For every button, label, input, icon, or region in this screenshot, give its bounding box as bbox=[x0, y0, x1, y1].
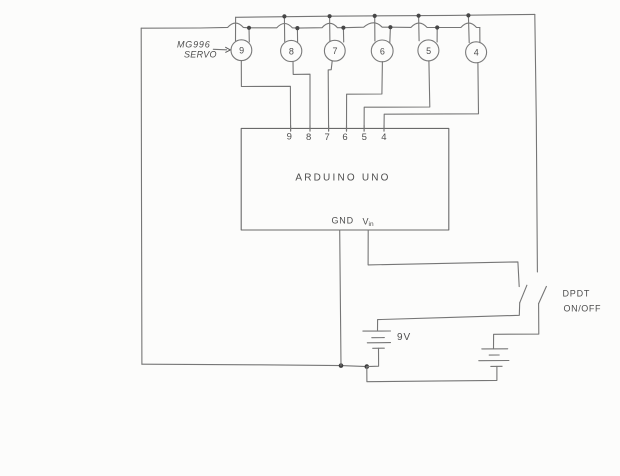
svg-text:7: 7 bbox=[325, 132, 330, 143]
junction: servo4 left lead on top bus bbox=[466, 13, 470, 17]
battery B1 plate long bbox=[367, 342, 390, 344]
annotation arrow to servo9 bbox=[213, 48, 226, 51]
battery B2 plate short bbox=[489, 354, 499, 356]
svg-text:DPDT: DPDT bbox=[563, 289, 591, 299]
label: servo pin digits inside circles bbox=[239, 46, 479, 58]
svg-text:SERVO: SERVO bbox=[184, 50, 217, 60]
svg-text:5: 5 bbox=[426, 46, 431, 56]
servo M4 circle bbox=[466, 42, 487, 63]
svg-text:Vin: Vin bbox=[363, 217, 374, 229]
wire: arduino GND lead down to bottom wire junction bbox=[340, 230, 341, 366]
junction: servo8 left lead on top bus bbox=[282, 14, 286, 18]
servo M6 circle bbox=[371, 40, 393, 62]
wire: servo9 right lead from bus dot to circle bbox=[248, 28, 250, 42]
svg-text:4: 4 bbox=[381, 132, 386, 143]
arduino pin stub 5 bbox=[363, 126, 365, 132]
junction: servo7 left lead on top bus bbox=[328, 14, 332, 18]
battery B1 plate short bbox=[372, 337, 385, 339]
wire: servo6 signal to arduino pin 6 bbox=[347, 62, 383, 131]
wire: servo8 right lead from bus dot to circle bbox=[296, 28, 298, 42]
wire: servo4 right lead drop from bus corner bbox=[479, 28, 481, 43]
wire: right vertical from top bus corner down to switch pole2 top contact bbox=[535, 14, 538, 272]
svg-text:6: 6 bbox=[342, 132, 347, 143]
arduino pin stub 8 bbox=[309, 126, 311, 132]
arduino U1 box bbox=[241, 128, 449, 230]
junction: servo6 right lead on second bus bbox=[388, 25, 392, 29]
wire: servo8 signal to arduino pin 8 bbox=[293, 62, 310, 132]
wire: servo5 left lead up to top bus bbox=[418, 16, 421, 41]
arduino pin stub 7 bbox=[328, 126, 330, 132]
battery B2 plate long top bbox=[482, 348, 508, 350]
svg-text:GND: GND bbox=[332, 216, 354, 226]
switch S1 pole1 blade (open) bbox=[520, 285, 527, 303]
svg-text:9V: 9V bbox=[397, 332, 411, 343]
label: MG996 SERVO bbox=[177, 40, 217, 60]
junction: GND wire meets bottom wire bbox=[339, 363, 344, 368]
battery B2 plate long bbox=[479, 360, 509, 362]
wire: servo8 left lead up to top bus bbox=[283, 16, 285, 41]
wire: servo5 right lead from bus dot to circle bbox=[436, 28, 438, 43]
junction: servo8 right lead on second bus bbox=[295, 26, 299, 30]
servo M7 circle bbox=[324, 40, 345, 61]
battery B1 9V plate long top bbox=[363, 330, 391, 332]
wire: battery B1 minus stub to junction bbox=[367, 348, 379, 366]
junction: servo5 right lead on second bus bbox=[435, 25, 439, 29]
wire: battery B2 minus stub left and up to junction bbox=[367, 366, 497, 381]
svg-text:9: 9 bbox=[287, 132, 292, 143]
svg-text:9: 9 bbox=[239, 46, 244, 56]
wire: bottom ground wire to GND junction and battery junction bbox=[142, 364, 367, 366]
wire: servo7 signal to arduino pin 7 bbox=[328, 61, 332, 131]
wire: left vertical of outer loop bbox=[140, 28, 143, 364]
arduino pin stub 6 bbox=[346, 126, 348, 132]
wire: servo9 left lead up to top bus bbox=[235, 17, 237, 41]
wire: servo6 right lead from bus dot to circle bbox=[389, 27, 392, 42]
wire: servo4 signal to arduino pin 4 bbox=[384, 63, 479, 131]
wire: switch pole1 bottom to 9V battery plus bbox=[378, 303, 520, 331]
wire: servo6 left lead up to top bus bbox=[374, 16, 376, 41]
wire: +V top bus (y~15-17) from servo9 left lead to top-right corner bbox=[236, 14, 535, 17]
junction: servo9 right lead on second bus bbox=[247, 26, 251, 30]
svg-text:7: 7 bbox=[332, 46, 337, 56]
servo M5 circle bbox=[418, 40, 439, 61]
arduino pin stub 9 bbox=[290, 126, 292, 132]
junction: servo7 right lead on second bus bbox=[341, 26, 345, 30]
battery B2 plate short bottom bbox=[491, 365, 502, 367]
junction: servo5 left lead on top bus bbox=[417, 14, 421, 18]
servo M8 circle bbox=[281, 40, 302, 61]
battery B1 plate short bottom bbox=[373, 347, 385, 349]
servo M9 circle bbox=[231, 40, 252, 61]
svg-text:8: 8 bbox=[289, 46, 294, 56]
wire: servo7 right lead from bus dot to circle bbox=[342, 28, 344, 42]
svg-text:MG996: MG996 bbox=[177, 40, 211, 50]
svg-text:4: 4 bbox=[474, 48, 479, 58]
wire: signal/second bus (y~27-28) from left corner to servo4 right lead, hopping over left leads bbox=[141, 23, 480, 28]
arduino pin stub 4 bbox=[383, 126, 385, 132]
svg-text:ON/OFF: ON/OFF bbox=[564, 304, 602, 314]
wire: servo7 left lead up to top bus bbox=[329, 16, 331, 41]
junction: battery minus node on bottom wire bbox=[365, 364, 370, 369]
switch S1 pole2 blade (open) bbox=[539, 286, 547, 303]
wire: servo4 left lead up to top bus bbox=[467, 15, 470, 42]
junction: servo6 left lead on top bus bbox=[373, 14, 377, 18]
wire: servo9 signal to arduino pin 9 bbox=[241, 61, 290, 131]
svg-text:6: 6 bbox=[380, 46, 385, 56]
svg-text:ARDUINO UNO: ARDUINO UNO bbox=[295, 173, 390, 184]
label: arduino pin numbers 9 8 7 6 5 4 bbox=[287, 132, 387, 144]
wire: servo5 signal to arduino pin 5 bbox=[364, 61, 430, 131]
svg-text:8: 8 bbox=[306, 132, 311, 143]
wire: arduino Vin lead down then right to switch pole1 top contact bbox=[368, 230, 519, 286]
wire: switch pole2 bottom to battery B2 plus bbox=[494, 304, 539, 349]
svg-text:5: 5 bbox=[362, 132, 367, 143]
